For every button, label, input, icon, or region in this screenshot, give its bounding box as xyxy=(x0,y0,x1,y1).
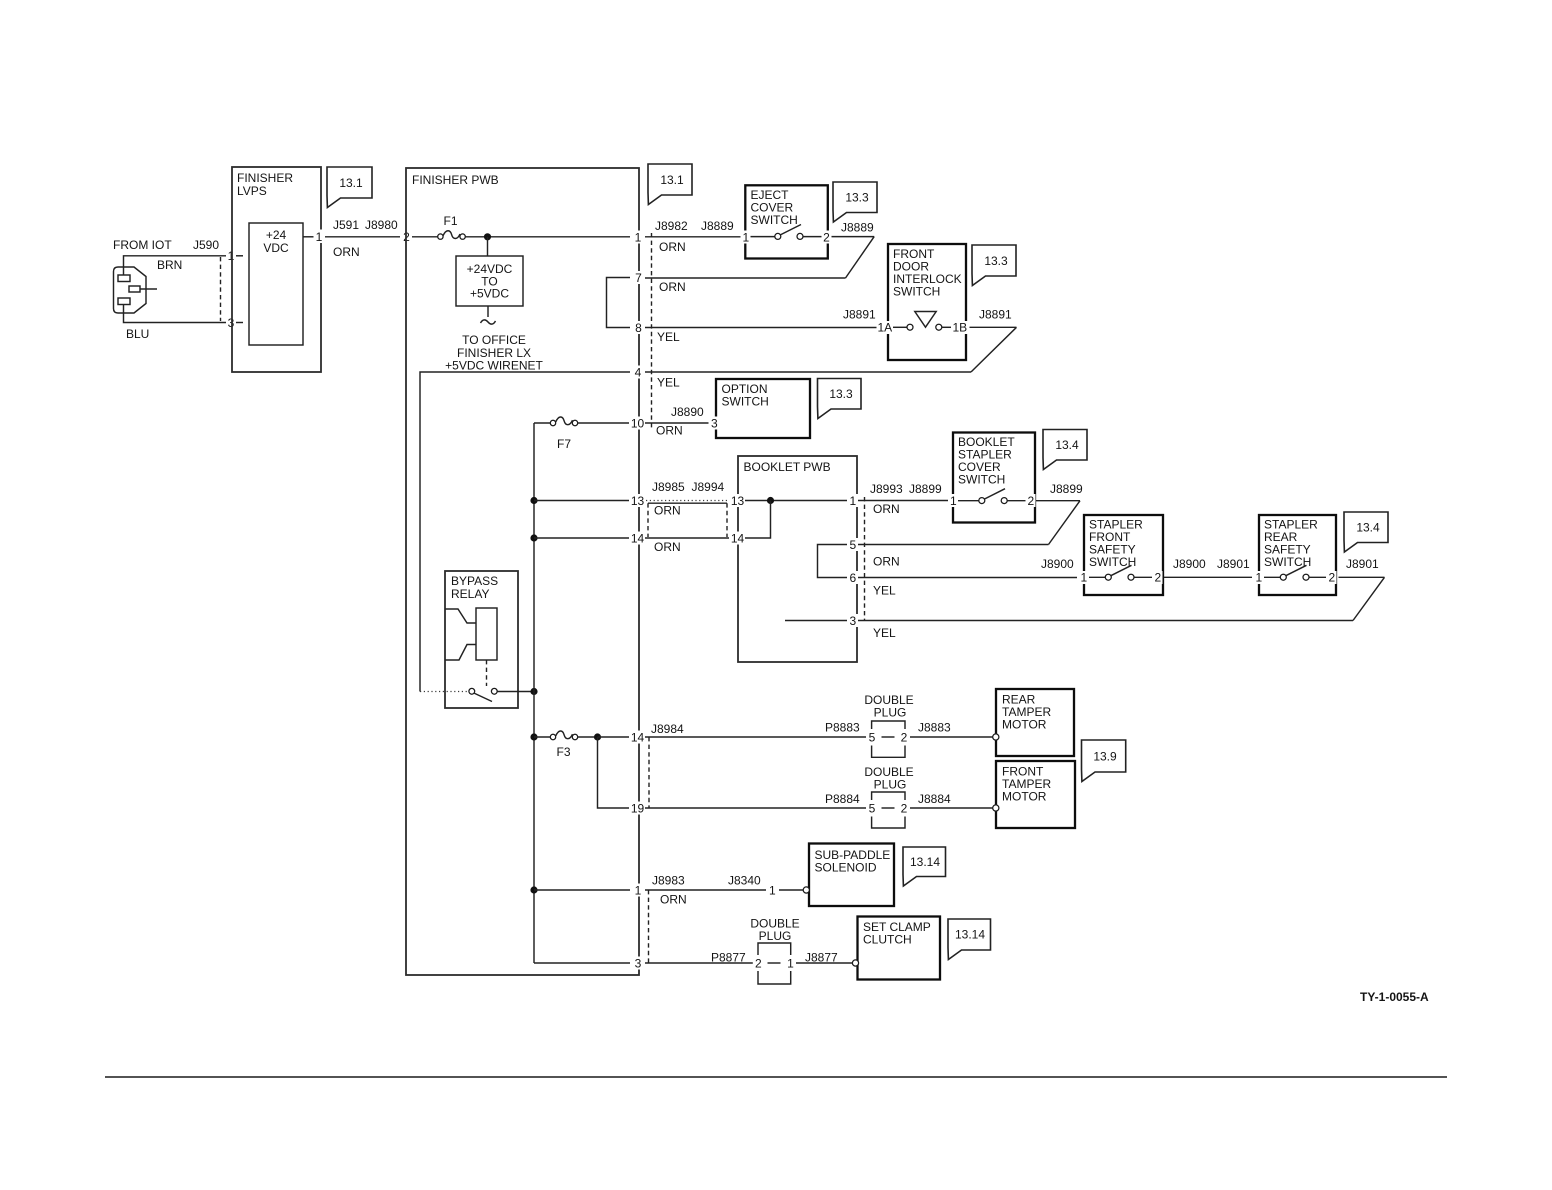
svg-text:J8891: J8891 xyxy=(979,308,1012,322)
wire ORN pin 14 pair xyxy=(645,538,738,554)
svg-text:13.14: 13.14 xyxy=(910,855,940,869)
wire J8884 to front tamper motor xyxy=(910,792,993,808)
switch STAPLER REAR SAFETY SWITCH xyxy=(1259,515,1336,595)
svg-text:1: 1 xyxy=(1080,571,1087,585)
pin 3 J590 xyxy=(226,316,236,330)
svg-text:SWITCH: SWITCH xyxy=(751,213,798,227)
svg-text:MOTOR: MOTOR xyxy=(1002,790,1047,804)
pin 1 J590 xyxy=(226,249,236,263)
svg-text:1B: 1B xyxy=(952,321,967,335)
svg-text:FINISHER: FINISHER xyxy=(237,171,293,185)
svg-text:2: 2 xyxy=(1328,571,1335,585)
pin 1 J8340 xyxy=(766,884,778,898)
clutch SET CLAMP CLUTCH xyxy=(852,917,940,980)
pin 2 rear safety switch xyxy=(1327,571,1337,585)
pin 1A interlock switch xyxy=(877,321,893,335)
pin 5 P8883 xyxy=(867,731,878,745)
wire BRN from plug to J590 pin 1 xyxy=(124,256,244,275)
wire ORN J8982-1 to eject cover switch pin 1 xyxy=(645,219,743,254)
svg-text:+5VDC: +5VDC xyxy=(470,287,509,301)
svg-text:4: 4 xyxy=(635,366,642,380)
svg-text:SWITCH: SWITCH xyxy=(722,395,769,409)
pin 2 P8877 xyxy=(753,957,764,971)
pin 1 LVPS J591 xyxy=(314,230,325,245)
pin 19 J8984 xyxy=(629,802,645,816)
wire YEL pin 3 run xyxy=(858,621,1353,641)
wire bus to pin 1 (J8983) xyxy=(534,889,631,891)
svg-text:MOTOR: MOTOR xyxy=(1002,718,1047,732)
svg-text:1: 1 xyxy=(787,957,794,971)
wire F1 to pin 1 with junction xyxy=(465,236,631,238)
pin 1 J8877 xyxy=(785,957,796,971)
fuse F3 xyxy=(534,731,594,759)
callout 13.14 set clamp clutch xyxy=(948,919,991,960)
svg-text:PLUG: PLUG xyxy=(874,706,907,720)
wire pin 13 to pin 1 inside booklet PWB xyxy=(745,500,849,502)
svg-text:14: 14 xyxy=(631,731,645,745)
wire junction down to pin 14 xyxy=(745,501,771,539)
pin 14 booklet PWB xyxy=(729,532,745,546)
IOT power plug P590 xyxy=(114,267,158,313)
jumper pins 5-6 inside booklet PWB xyxy=(818,545,850,578)
svg-text:SOLENOID: SOLENOID xyxy=(815,861,877,875)
svg-text:BYPASS: BYPASS xyxy=(451,574,498,588)
wire J8883 to rear tamper motor xyxy=(910,721,993,738)
svg-text:1: 1 xyxy=(635,884,642,898)
svg-text:13.1: 13.1 xyxy=(339,176,363,190)
svg-text:1: 1 xyxy=(742,231,749,245)
callout 13.4 cover switch xyxy=(1043,430,1087,470)
svg-text:13: 13 xyxy=(631,494,645,508)
svg-text:J8983: J8983 xyxy=(652,874,685,888)
wire F3 to pin 14 (J8984) xyxy=(598,736,632,738)
wire J8901 from rear safety pin 2 with off-page flag xyxy=(1339,557,1385,621)
switch FRONT DOOR INTERLOCK SWITCH xyxy=(888,244,966,360)
svg-text:1: 1 xyxy=(950,494,957,508)
wire J8900/J8901 between safety switches xyxy=(1164,557,1252,577)
junction node bus to pin 1 (J8983) xyxy=(530,886,537,893)
svg-text:3: 3 xyxy=(711,417,718,431)
svg-text:ORN: ORN xyxy=(656,424,683,438)
double plug P8883/J8883 xyxy=(864,693,913,757)
module BOOKLET PWB box xyxy=(738,456,857,662)
svg-text:J8889: J8889 xyxy=(841,221,874,235)
node FROM IOT label xyxy=(113,238,172,252)
svg-text:14: 14 xyxy=(631,532,645,546)
svg-text:19: 19 xyxy=(631,802,645,816)
svg-text:YEL: YEL xyxy=(657,376,680,390)
wire off-page flag diagonal to pin 7 xyxy=(846,237,875,278)
svg-text:J8900: J8900 xyxy=(1041,557,1074,571)
svg-text:TY-1-0055-A: TY-1-0055-A xyxy=(1360,990,1429,1004)
wire junction down to converter xyxy=(487,237,489,256)
pin 10 J8982 xyxy=(629,417,645,431)
svg-text:F1: F1 xyxy=(443,214,457,228)
svg-text:CLUTCH: CLUTCH xyxy=(863,933,912,947)
svg-text:+5VDC WIRENET: +5VDC WIRENET xyxy=(445,359,543,373)
svg-text:PLUG: PLUG xyxy=(874,778,907,792)
svg-text:BLU: BLU xyxy=(126,327,149,341)
svg-text:RELAY: RELAY xyxy=(451,587,489,601)
wire ORN J8890 pin 10 to option switch xyxy=(645,405,709,438)
wire +24V switched bus vertical xyxy=(533,423,535,963)
svg-text:ORN: ORN xyxy=(659,280,686,294)
connector J590 label xyxy=(193,238,219,252)
svg-text:J8901: J8901 xyxy=(1217,557,1250,571)
svg-text:13.3: 13.3 xyxy=(845,191,869,205)
pin 14 J8984 xyxy=(629,731,645,745)
svg-text:ORN: ORN xyxy=(873,502,900,516)
motor FRONT TAMPER MOTOR xyxy=(993,761,1075,828)
svg-text:J8980: J8980 xyxy=(365,218,398,232)
relay BYPASS RELAY box xyxy=(445,571,518,708)
callout 13.4 rear safety switch xyxy=(1344,512,1388,552)
motor REAR TAMPER MOTOR xyxy=(993,689,1074,756)
callout 13.1 LVPS xyxy=(327,167,372,208)
svg-text:2: 2 xyxy=(1027,494,1034,508)
pin 1B interlock switch xyxy=(952,321,968,335)
svg-text:2: 2 xyxy=(755,957,762,971)
wire ORN pin 5 run xyxy=(858,545,1049,569)
wire pin 3 to set clamp clutch plug xyxy=(645,951,753,965)
pin 4 J8982 xyxy=(630,366,645,380)
callout 13.3 option switch xyxy=(818,379,862,419)
wire ORN J8983 pin 1 to sub-paddle solenoid xyxy=(645,874,766,907)
svg-text:1: 1 xyxy=(849,494,856,508)
svg-text:13.4: 13.4 xyxy=(1055,438,1079,452)
svg-text:2: 2 xyxy=(901,731,908,745)
svg-text:J8891: J8891 xyxy=(843,308,876,322)
switch STAPLER FRONT SAFETY SWITCH xyxy=(1084,515,1163,595)
wire stub pin 3 inside booklet PWB xyxy=(785,620,849,622)
wire J8984 pin 19 to front tamper motor xyxy=(645,792,866,808)
svg-text:SWITCH: SWITCH xyxy=(958,473,1005,487)
svg-text:J8884: J8884 xyxy=(918,792,951,806)
wire J8891 from interlock pin 1B with off-page flag xyxy=(970,308,1017,373)
double plug P8884/J8884 xyxy=(864,765,913,828)
wire YEL pin 4 run xyxy=(645,372,971,390)
+24VDC TO +5VDC converter block xyxy=(456,256,523,306)
svg-text:ORN: ORN xyxy=(333,245,360,259)
svg-text:ORN: ORN xyxy=(660,893,687,907)
svg-text:13.14: 13.14 xyxy=(955,928,985,942)
pin 14 J8985 xyxy=(629,532,645,546)
svg-text:13.3: 13.3 xyxy=(984,254,1008,268)
footer rule xyxy=(105,1076,1447,1078)
svg-text:YEL: YEL xyxy=(873,584,896,598)
svg-text:ORN: ORN xyxy=(654,504,681,518)
pin 2 J8884 xyxy=(899,802,910,816)
svg-text:YEL: YEL xyxy=(657,330,680,344)
svg-text:J8982: J8982 xyxy=(655,219,688,233)
svg-text:J8889: J8889 xyxy=(701,219,734,233)
svg-text:10: 10 xyxy=(631,417,645,431)
wire F3 branch down to pin 19 xyxy=(598,737,632,808)
pin 3 J8983 xyxy=(630,957,645,971)
svg-text:YEL: YEL xyxy=(873,626,896,640)
pin 1 eject cover switch xyxy=(741,231,751,245)
callout 13.1 FINISHER PWB xyxy=(648,164,692,205)
svg-text:6: 6 xyxy=(849,571,856,585)
svg-text:J8340: J8340 xyxy=(728,874,761,888)
junction node +24VDC xyxy=(484,233,491,240)
wire J8984 pin 14 to rear tamper motor xyxy=(645,721,866,738)
wire J8340 to solenoid xyxy=(779,889,803,891)
svg-text:+24: +24 xyxy=(266,228,287,242)
svg-text:13.9: 13.9 xyxy=(1093,750,1117,764)
svg-text:2: 2 xyxy=(901,802,908,816)
svg-text:13.3: 13.3 xyxy=(829,387,853,401)
fuse F7 xyxy=(534,417,631,451)
svg-text:BOOKLET PWB: BOOKLET PWB xyxy=(744,460,831,474)
wire ORN J591/J8980 from LVPS to FINISHER PWB pin 2 xyxy=(325,218,400,259)
svg-text:8: 8 xyxy=(635,321,642,335)
junction node bus to pin 13 feeder xyxy=(530,497,537,504)
svg-text:J8993: J8993 xyxy=(870,482,903,496)
pin 5 P8884 xyxy=(867,802,878,816)
switch OPTION SWITCH box xyxy=(716,379,810,438)
module FINISHER PWB box xyxy=(406,168,639,975)
pin 7 J8982 xyxy=(630,271,645,285)
svg-text:PLUG: PLUG xyxy=(759,929,792,943)
svg-text:5: 5 xyxy=(869,802,876,816)
connector J8985 dashed segment xyxy=(647,503,649,537)
jumper pins 7-8 inside PWB xyxy=(607,278,634,328)
wire +24VDC out to LVPS pin 1 xyxy=(303,236,314,238)
svg-text:P8883: P8883 xyxy=(825,721,860,735)
svg-text:1: 1 xyxy=(635,231,642,245)
svg-text:1: 1 xyxy=(769,884,776,898)
svg-text:J591: J591 xyxy=(333,218,359,232)
svg-text:FROM IOT: FROM IOT xyxy=(113,238,172,252)
svg-text:J8883: J8883 xyxy=(918,721,951,735)
svg-text:2: 2 xyxy=(1154,571,1161,585)
svg-text:ORN: ORN xyxy=(659,240,686,254)
wire J8877 to set clamp clutch xyxy=(796,951,853,965)
svg-text:3: 3 xyxy=(635,957,642,971)
svg-text:VDC: VDC xyxy=(263,241,289,255)
double plug P8877/J8877 xyxy=(750,917,799,985)
svg-text:ORN: ORN xyxy=(654,540,681,554)
pin 5 J8993 xyxy=(847,538,858,552)
wire YEL J8982-8 to interlock switch pin 1A xyxy=(645,308,877,345)
svg-text:P8877: P8877 xyxy=(711,951,746,965)
svg-text:1A: 1A xyxy=(877,321,892,335)
svg-text:5: 5 xyxy=(849,538,856,552)
svg-text:J8900: J8900 xyxy=(1173,557,1206,571)
junction node F3 output xyxy=(594,733,601,740)
svg-text:F3: F3 xyxy=(557,745,571,759)
callout 13.14 solenoid xyxy=(903,847,946,886)
wire feeder to pin 14 xyxy=(534,537,631,539)
pin 6 J8993 xyxy=(847,571,858,585)
wire YEL J8900 pin 6 to stapler front safety switch xyxy=(858,557,1077,598)
pin 8 J8982 xyxy=(630,321,645,335)
pin 2 cover switch xyxy=(1026,494,1036,508)
svg-text:P8884: P8884 xyxy=(825,792,860,806)
pin 1 rear safety switch xyxy=(1254,571,1264,585)
pin 3 option switch xyxy=(709,417,720,431)
wire J8899 from cover switch pin 2 with off-page flag xyxy=(1036,482,1084,545)
pin 2 FINISHER PWB xyxy=(401,230,413,245)
pin 13 booklet PWB xyxy=(729,494,745,508)
svg-text:14: 14 xyxy=(731,532,745,546)
junction node relay output on +24V bus xyxy=(530,688,537,695)
svg-text:5: 5 xyxy=(869,731,876,745)
pin 2 front safety switch xyxy=(1153,571,1163,585)
pin 1 cover switch xyxy=(948,494,958,508)
svg-text:J590: J590 xyxy=(193,238,219,252)
pin 13 J8985 xyxy=(629,494,645,508)
junction node booklet internal xyxy=(767,497,774,504)
solenoid SUB-PADDLE SOLENOID xyxy=(803,844,894,907)
+24 VDC supply block inside LVPS xyxy=(249,223,303,345)
wire ORN J8993/J8899 pin 1 to booklet stapler cover switch xyxy=(858,482,949,516)
pin 1 front safety switch xyxy=(1079,571,1089,585)
svg-text:J8984: J8984 xyxy=(651,722,684,736)
svg-text:ORN: ORN xyxy=(873,555,900,569)
junction node bus to fuse F3 xyxy=(530,733,537,740)
connector J8984 dashed line xyxy=(648,737,650,808)
pin 3 J8993 xyxy=(847,614,858,628)
svg-text:13.1: 13.1 xyxy=(660,173,684,187)
wire pin 4 YEL return inside PWB xyxy=(420,372,631,692)
wire BLU from plug to J590 pin 3 xyxy=(124,304,244,341)
pin 1 J8993 xyxy=(847,494,858,508)
svg-text:1: 1 xyxy=(316,230,323,244)
svg-text:J8899: J8899 xyxy=(1050,482,1083,496)
wire bus corner to pin 3 (J8983) xyxy=(534,962,631,964)
connector J8982 dashed line xyxy=(651,233,653,430)
connector J8993 dashed line xyxy=(864,497,866,620)
fuse F1 xyxy=(412,214,465,239)
svg-text:FINISHER PWB: FINISHER PWB xyxy=(412,173,499,187)
connector J8994 dashed segment xyxy=(726,503,728,537)
svg-text:TO OFFICE: TO OFFICE xyxy=(462,333,526,347)
switch EJECT COVER SWITCH xyxy=(745,185,828,258)
wire ORN pin 7 run xyxy=(645,278,846,294)
svg-text:J8994: J8994 xyxy=(692,480,725,494)
svg-text:13: 13 xyxy=(731,494,745,508)
wire J8889 return from eject switch pin 2 xyxy=(832,221,875,237)
svg-text:J8985: J8985 xyxy=(652,480,685,494)
svg-text:F7: F7 xyxy=(557,437,571,451)
pin 1 J8983 xyxy=(630,884,645,898)
module FINISHER LVPS box xyxy=(232,167,321,372)
svg-text:J8890: J8890 xyxy=(671,405,704,419)
callout 13.9 tamper motors xyxy=(1082,740,1126,782)
svg-text:3: 3 xyxy=(849,614,856,628)
off-page squiggle to +5VDC wirenet xyxy=(445,306,543,373)
svg-text:J8899: J8899 xyxy=(909,482,942,496)
pin 2 eject cover switch xyxy=(822,231,832,245)
connector J8983 dashed line xyxy=(648,890,650,963)
svg-text:SWITCH: SWITCH xyxy=(893,285,940,299)
pin 1 J8982 xyxy=(630,231,645,245)
svg-text:2: 2 xyxy=(823,231,830,245)
wire ORN J8985/J8994 pin 13 pair xyxy=(646,480,738,518)
switch BOOKLET STAPLER COVER SWITCH xyxy=(953,433,1035,523)
svg-text:13.4: 13.4 xyxy=(1356,521,1380,535)
svg-text:7: 7 xyxy=(635,271,642,285)
callout 13.3 eject cover switch xyxy=(833,182,877,222)
relay contact xyxy=(420,688,534,701)
relay coil xyxy=(445,608,497,686)
connector J590 dashed line xyxy=(220,257,222,321)
callout 13.3 interlock switch xyxy=(972,245,1016,286)
svg-text:BRN: BRN xyxy=(157,258,182,272)
wire feeder to pin 13 xyxy=(534,500,631,502)
svg-text:J8877: J8877 xyxy=(805,951,838,965)
junction node bus to pin 14 feeder xyxy=(530,534,537,541)
svg-text:J8901: J8901 xyxy=(1346,557,1379,571)
pin 2 J8883 xyxy=(899,731,910,745)
svg-text:1: 1 xyxy=(1255,571,1262,585)
svg-text:LVPS: LVPS xyxy=(237,184,267,198)
